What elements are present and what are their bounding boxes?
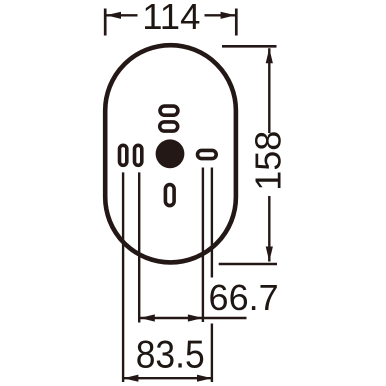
dim 114: right tick <box>235 9 238 36</box>
svg-text:158: 158 <box>248 131 289 191</box>
slot R (right horizontal slot) <box>198 150 217 158</box>
extension line B (from left slot L2 center) <box>138 172 140 322</box>
dim 83.5: left arrowhead <box>123 375 138 382</box>
extension line D lower <box>211 324 213 383</box>
center hole (filled) <box>156 139 185 168</box>
plate outline (obround) <box>105 45 236 262</box>
dim 158: top arrowhead <box>266 48 273 63</box>
slot B (lower vertical slot) <box>165 185 174 206</box>
dim 158: lower line segment <box>268 196 270 262</box>
dim 83.5: line between arrows <box>123 377 212 379</box>
dim 66.7: extended tail line <box>203 317 247 319</box>
dim 114: right arrowhead <box>221 12 236 19</box>
slot L1 (left vertical slot 1) <box>120 145 127 165</box>
dim 114: left line segment <box>106 14 138 16</box>
dim 158: bottom arrowhead <box>266 247 273 262</box>
svg-text:114: 114 <box>142 0 200 37</box>
slot L2 (left vertical slot 2) <box>135 145 142 165</box>
dim 66.7: line between arrows <box>140 317 203 319</box>
dim 114: left tick <box>104 9 107 36</box>
dim 158: bottom extension line <box>219 263 277 266</box>
dim 114: left arrowhead <box>106 12 121 19</box>
slot T1 (upper horizontal slot) <box>160 106 178 115</box>
dim 83.5: right arrowhead <box>197 375 212 382</box>
slot T2 (lower horizontal slot) <box>160 122 178 131</box>
dim 66.7: left arrowhead <box>140 314 155 321</box>
dim 66.7: right arrowhead <box>188 314 203 321</box>
dim 158: top extension line <box>222 45 277 48</box>
svg-text:83.5: 83.5 <box>136 333 205 376</box>
dim 114: right line segment <box>205 14 236 16</box>
extension line C (from right slot, left side) <box>202 168 204 323</box>
extension line A (from left slot L1 center) <box>122 172 124 382</box>
extension line D upper (from right slot, right side) <box>211 168 213 278</box>
svg-text:66.7: 66.7 <box>209 277 279 318</box>
dim 158: upper line segment <box>268 48 270 133</box>
